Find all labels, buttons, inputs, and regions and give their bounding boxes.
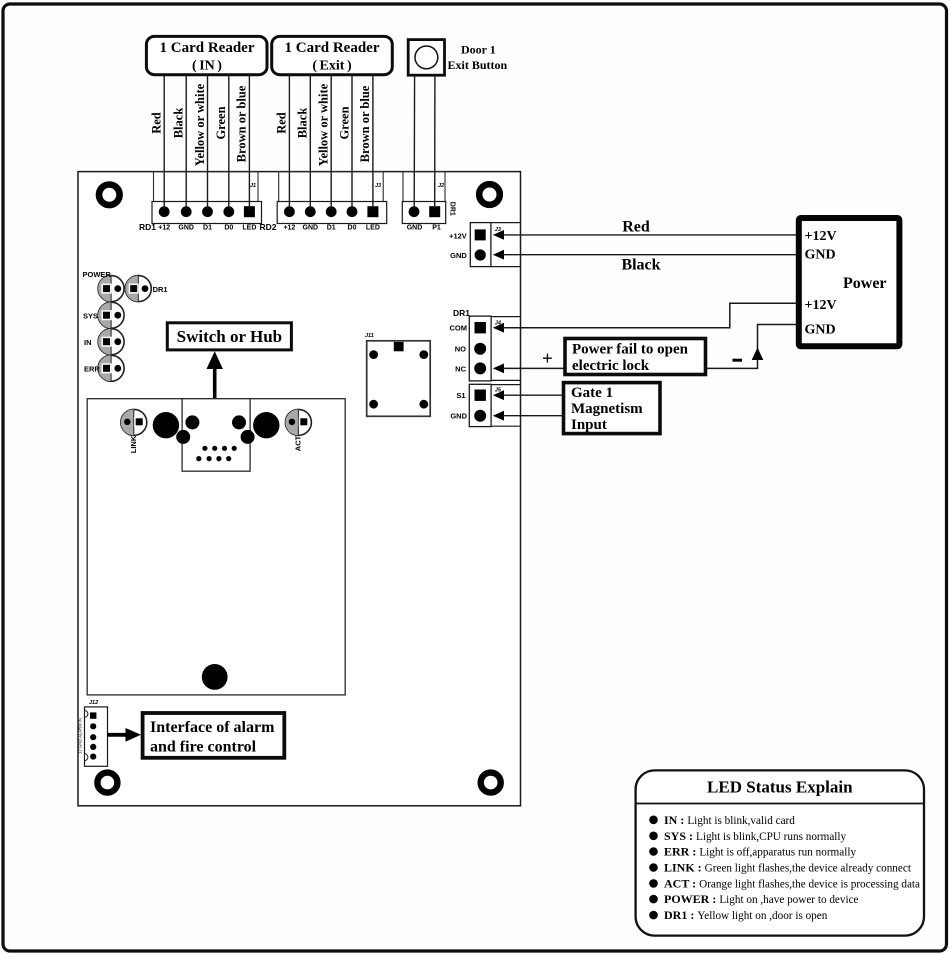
LED POWER [98,276,124,302]
arrow into COM [493,323,504,333]
wire RD2 brown/blue [372,75,374,209]
svg-text:Magnetism: Magnetism [571,401,643,417]
wire RD1 brown/blue [248,75,250,209]
pad right large [253,412,279,438]
svg-text:LED: LED [366,225,380,232]
wire exit button P1 [434,75,436,208]
arrow into NC [493,364,504,374]
svg-text:POWER : Light on ,have power t: POWER : Light on ,have power to device [664,892,859,906]
labels COM NO NC [450,324,468,374]
wire exit button GND [413,75,415,208]
bullet LINK [649,861,912,875]
svg-text:Black: Black [621,257,660,274]
module bottom pad [202,664,228,690]
svg-text:D1: D1 [203,225,212,232]
svg-text:DR1: DR1 [449,202,456,216]
connector RD2 footprint J3 [279,172,384,212]
RD1 pin LED [244,206,255,217]
svg-text:NO: NO [455,345,466,354]
svg-text:RD1: RD1 [139,222,156,232]
svg-text:electric lock: electric lock [572,358,650,374]
svg-text:+12V: +12V [805,229,837,244]
svg-text:IN : Light is blink,valid card: IN : Light is blink,valid card [664,813,795,827]
svg-text:COM: COM [450,324,468,333]
terminal block J5 sensor [469,384,521,426]
RD1 pin +12 [159,206,170,217]
arrow to switch [207,351,223,398]
LED ERR [98,355,124,381]
svg-text:(IN): (IN) [192,59,222,74]
svg-text:+: + [542,349,553,370]
svg-text:+12: +12 [158,225,170,232]
wire S1 to gate box [503,394,564,396]
gate magnetism box [564,383,661,434]
RD2 pin D1 [326,206,337,217]
svg-text:Yellow or white: Yellow or white [317,83,331,166]
RD2 pin +12 [284,206,295,217]
terminal block J3 power in [470,223,521,267]
svg-text:NC: NC [455,364,466,373]
up arrowhead on NC wire [752,348,764,361]
bullet ERR [649,845,856,859]
svg-text:Interface of alarm: Interface of alarm [150,719,275,736]
svg-text:J11: J11 [365,333,374,339]
pad left large [153,412,179,438]
svg-text:Red: Red [150,112,164,134]
svg-text:Yellow or white: Yellow or white [193,83,207,166]
svg-text:S1: S1 [456,391,465,400]
svg-text:Brown or blue: Brown or blue [235,85,249,162]
svg-text:RD2: RD2 [260,222,277,232]
terminal block RD1 [152,202,262,224]
svg-text:J3: J3 [375,183,381,189]
pad small 4 [241,430,255,444]
svg-text:1 Card Reader: 1 Card Reader [285,40,380,56]
LED SYS [98,302,124,328]
arrow into GND (J5) [493,411,504,421]
svg-text:Green: Green [214,106,228,139]
svg-text:Door 1: Door 1 [461,43,496,57]
svg-text:Power fail to open: Power fail to open [572,342,689,358]
svg-text:+12V: +12V [805,298,837,313]
mounting hole top-left [99,185,120,206]
bullet ACT [649,876,920,890]
wire RD1 black [185,75,187,209]
pad small 2 [232,415,246,429]
svg-text:Green: Green [337,106,351,139]
svg-text:LINK: LINK [129,435,138,453]
terminal block J4 lock relay [469,316,521,381]
bullet POWER [649,892,858,906]
svg-text:DR1 : Yellow light on ,door is: DR1 : Yellow light on ,door is open [664,908,828,922]
jack pins row 1 [202,446,237,451]
connector DR1 footprint J2 [403,172,445,212]
mounting hole top-right [479,184,500,205]
svg-text:+12V: +12V [449,231,467,240]
svg-text:J2: J2 [438,183,444,189]
svg-text:GND: GND [805,323,836,338]
bullet DR1 [649,908,828,922]
PCB board outline [78,172,521,806]
card reader EXIT box [272,36,393,74]
exit button SW1 [408,40,444,76]
svg-text:Exit Button: Exit Button [448,58,508,72]
svg-text:Input: Input [571,417,607,433]
wire RD2 red [288,75,290,209]
power supply box [799,218,900,346]
svg-text:ACT: ACT [294,435,303,451]
relay J11 [365,333,430,416]
svg-text:SYS: SYS [83,311,98,320]
svg-text:POWER: POWER [83,270,112,279]
label Door 1 Exit Button [448,43,508,72]
mounting hole bottom-left [97,773,117,793]
interface of alarm box [143,713,285,758]
labels S1 GND (J5) [450,391,467,421]
svg-text:D0: D0 [224,225,233,232]
svg-text:12 GND ALARM IN: 12 GND ALARM IN [78,718,83,754]
network module outline [87,399,345,695]
wire Red to power [503,234,798,236]
jack pins row 2 [196,456,231,461]
svg-text:GND: GND [178,225,194,232]
minus sign [733,359,743,362]
bullet IN [649,813,795,827]
connector RD1 footprint J1 [154,172,259,212]
svg-text:Switch or Hub: Switch or Hub [177,327,283,346]
arrow to interface box [108,728,142,742]
wire GND to gate box [503,415,564,417]
svg-text:DR1: DR1 [153,285,168,294]
RD1 pin D1 [202,206,213,217]
wire RD1 green [228,75,230,209]
wire COM to power +12V [503,303,798,327]
svg-text:D0: D0 [348,225,357,232]
svg-text:D1: D1 [327,225,336,232]
bullet SYS [649,829,846,843]
RD2 pin GND [305,206,316,217]
svg-text:GND: GND [407,225,423,232]
DR1 pin P1 [429,206,440,217]
svg-text:+12: +12 [283,225,295,232]
terminal block RD2 [277,202,387,224]
wire RD2 black [309,75,311,209]
svg-text:GND: GND [805,247,836,262]
terminal block DR1 (door) [402,202,445,224]
wire RD2 yellow/white [330,75,332,209]
svg-text:LED: LED [242,225,256,232]
svg-text:GND: GND [450,412,467,421]
RD1 pin GND [181,206,192,217]
labels +12V GND (J3) [449,231,467,259]
svg-text:J12: J12 [89,700,98,706]
svg-text:P1: P1 [432,225,441,232]
wire RD1 red [163,75,165,209]
svg-text:and fire control: and fire control [150,739,257,756]
pad small 1 [185,415,199,429]
DR1 block labels [407,202,456,232]
svg-text:ERR : Light is off,apparatus r: ERR : Light is off,apparatus run normall… [664,845,856,859]
svg-text:GND: GND [303,225,319,232]
svg-text:SYS : Light is blink,CPU runs: SYS : Light is blink,CPU runs normally [664,829,847,843]
LED status explain box [636,770,924,935]
wire Black to power [503,254,798,256]
card reader IN box [146,36,267,74]
svg-text:Gate 1: Gate 1 [571,385,613,401]
LED IN [98,329,124,355]
svg-text:Power: Power [843,275,887,292]
svg-text:Black: Black [296,108,310,139]
power fail box [565,339,706,375]
RD2 pin LED [367,206,378,217]
svg-text:ACT : Orange light flashes,the: ACT : Orange light flashes,the device is… [664,876,920,890]
RJ45 jack outline [182,399,250,472]
svg-text:Red: Red [622,219,650,236]
RD1 labels [139,222,256,232]
arrow into +12V [493,230,504,240]
svg-text:LINK : Green light flashes,the: LINK : Green light flashes,the device al… [664,861,912,875]
wire NC to power GND [503,325,798,369]
Switch or Hub box [167,323,291,350]
RD2 pin D0 [347,206,358,217]
wire RD2 green [351,75,353,209]
pad small 3 [176,430,190,444]
wire RD1 yellow/white [207,75,209,209]
svg-text:Red: Red [275,112,289,134]
svg-text:J1: J1 [250,183,256,189]
RD1 pin D0 [223,206,234,217]
arrow into GND [493,250,504,260]
LED ACT [285,409,311,435]
svg-text:Black: Black [172,108,186,139]
arrow into S1 [493,390,504,400]
svg-text:1 Card Reader: 1 Card Reader [160,40,255,56]
LED LINK [121,409,147,435]
mounting hole bottom-right [481,773,501,793]
svg-text:DR1: DR1 [453,308,470,318]
connector J12 alarm interface [78,700,108,766]
svg-text:GND: GND [450,251,467,260]
DR1 pin GND [409,206,420,217]
svg-text:Brown or blue: Brown or blue [358,85,372,162]
RD2 labels [260,222,380,232]
svg-text:LED Status Explain: LED Status Explain [707,778,853,797]
svg-text:ERR: ERR [84,365,100,374]
LED DR1 [125,276,151,302]
svg-text:IN: IN [84,338,92,347]
